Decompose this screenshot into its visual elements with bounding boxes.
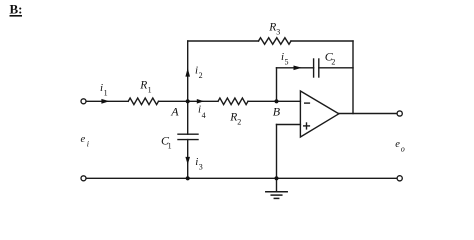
svg-text:5: 5 [285, 58, 289, 67]
svg-text:1: 1 [104, 89, 108, 98]
svg-text:e: e [395, 139, 400, 150]
svg-text:2: 2 [199, 71, 203, 80]
svg-text:1: 1 [148, 85, 152, 94]
svg-text:R: R [139, 80, 147, 92]
svg-text:4: 4 [202, 111, 206, 120]
svg-text:i: i [87, 139, 89, 148]
svg-text:i: i [198, 104, 201, 116]
svg-text:3: 3 [276, 28, 280, 37]
svg-text:B:: B: [10, 2, 23, 17]
svg-text:R: R [268, 22, 276, 34]
svg-text:e: e [81, 134, 86, 145]
svg-text:o: o [401, 145, 405, 154]
svg-text:i: i [195, 156, 198, 168]
svg-text:R: R [229, 111, 237, 123]
svg-text:i: i [100, 82, 103, 94]
svg-text:B: B [273, 104, 281, 118]
svg-text:A: A [170, 105, 179, 119]
svg-text:1: 1 [168, 141, 172, 150]
svg-text:i: i [195, 64, 198, 76]
svg-text:2: 2 [237, 117, 241, 126]
svg-text:3: 3 [199, 163, 203, 172]
svg-text:2: 2 [331, 58, 335, 67]
